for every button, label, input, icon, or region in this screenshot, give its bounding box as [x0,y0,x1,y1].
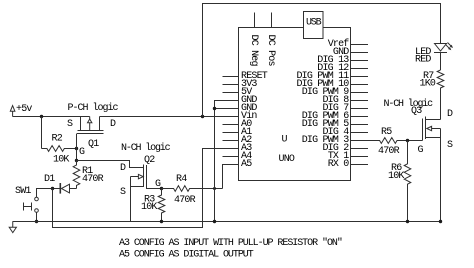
svg-text:U: U [282,135,288,146]
svg-text:A5: A5 [241,159,252,170]
svg-text:Q2: Q2 [144,155,155,166]
svg-text:DC Pos: DC Pos [265,35,276,67]
pin labels right [296,38,349,170]
op board U1 Arduino UNO outline [239,28,351,181]
transistor Q2 N-channel MOSFET [120,155,162,222]
svg-text:D: D [120,163,126,174]
svg-text:D: D [447,109,453,120]
node junction SW1/ground rail [35,220,38,223]
svg-text:N-CH logic: N-CH logic [384,98,434,110]
svg-text:D: D [110,119,116,130]
pin stubs right [351,45,369,165]
diode D1 [44,174,77,194]
svg-text:G: G [418,145,424,156]
svg-text:G: G [155,179,161,190]
power +5V symbol [10,104,32,117]
wire +5V rail [13,116,239,118]
pin stubs left [223,77,239,157]
svg-text:RED: RED [415,55,431,66]
svg-text:470R: 470R [82,174,104,185]
svg-text:SW1: SW1 [15,186,31,197]
svg-text:10K: 10K [53,155,69,166]
node junction GND pins [213,107,216,110]
svg-text:USB: USB [306,18,322,29]
svg-text:470R: 470R [378,146,400,157]
node junction +5V/LED/Vin [201,115,204,118]
resistor R1 [73,161,103,189]
connector USB [304,12,324,39]
node junction R3/ground rail [160,220,163,223]
node junction R5/R6/Q3 gate [406,139,409,142]
node G1 junction R2/Q1 gate/R1 [75,147,78,150]
node junction Q3 source/ground rail [439,220,442,223]
svg-text:+5v: +5v [16,104,32,115]
svg-text:10K: 10K [388,171,404,182]
node junction D1/SW1/A3 [51,187,54,190]
pin labels left [241,71,268,170]
svg-text:DC Neg: DC Neg [248,35,259,67]
resistor R3 [141,189,165,222]
svg-text:G: G [79,147,85,158]
svg-text:R5: R5 [381,127,392,138]
svg-text:N-CH logic: N-CH logic [121,142,171,154]
wire LED to R7 [440,52,442,70]
wire ground rail [13,221,443,223]
svg-text:A3 CONFIG AS INPUT WITH PULL-U: A3 CONFIG AS INPUT WITH PULL-UP RESISTOR… [119,237,342,249]
svg-text:P-CH logic: P-CH logic [68,102,119,114]
node junction GND/ground rail [213,220,216,223]
wire SW1 bottom [36,213,38,222]
svg-text:S: S [120,187,126,198]
node junction R6/ground rail [406,220,409,223]
resistor R5 [351,127,423,157]
resistor R7 [420,70,444,120]
svg-text:D1: D1 [44,174,55,185]
node G2 junction Q2 gate/R3/R4 [160,187,163,190]
node junction R1/Q2 drain [75,159,78,162]
switch SW1 [15,186,38,212]
resistor R6 [388,141,411,222]
svg-text:470R: 470R [174,195,196,206]
wire gate column [76,134,78,161]
wire Q2 drain [77,161,144,168]
LED D2 [415,43,453,66]
svg-text:UNO: UNO [279,154,295,165]
svg-text:S: S [67,119,73,130]
wire A5 [223,165,239,189]
svg-text:10K: 10K [141,202,157,213]
transistor Q3 N-channel MOSFET [411,106,453,222]
svg-text:1K0: 1K0 [420,79,436,90]
wire LED feed from +5V [203,4,441,117]
svg-text:R2: R2 [52,134,63,145]
wire GND pins [215,101,239,222]
node junction +5V/R2 [40,115,43,118]
wire R2 branch [41,117,43,149]
ground symbol [9,222,16,233]
svg-text:R4: R4 [176,174,187,185]
svg-text:Q1: Q1 [88,139,99,150]
resistor R4 [162,174,223,206]
svg-text:A5 CONFIG AS DIGITAL OUTPUT: A5 CONFIG AS DIGITAL OUTPUT [119,250,254,261]
pin stubs DC power top [255,13,272,28]
wire A3 [53,149,239,228]
wire SW1 top [37,189,53,198]
resistor R2 [42,134,77,166]
svg-text:Q3: Q3 [411,106,422,117]
svg-text:RX 0: RX 0 [328,159,350,170]
transistor Q1 P-channel MOSFET [67,117,116,151]
svg-text:S: S [447,140,453,151]
node junction R4 wire/GND column crossing [213,187,216,190]
